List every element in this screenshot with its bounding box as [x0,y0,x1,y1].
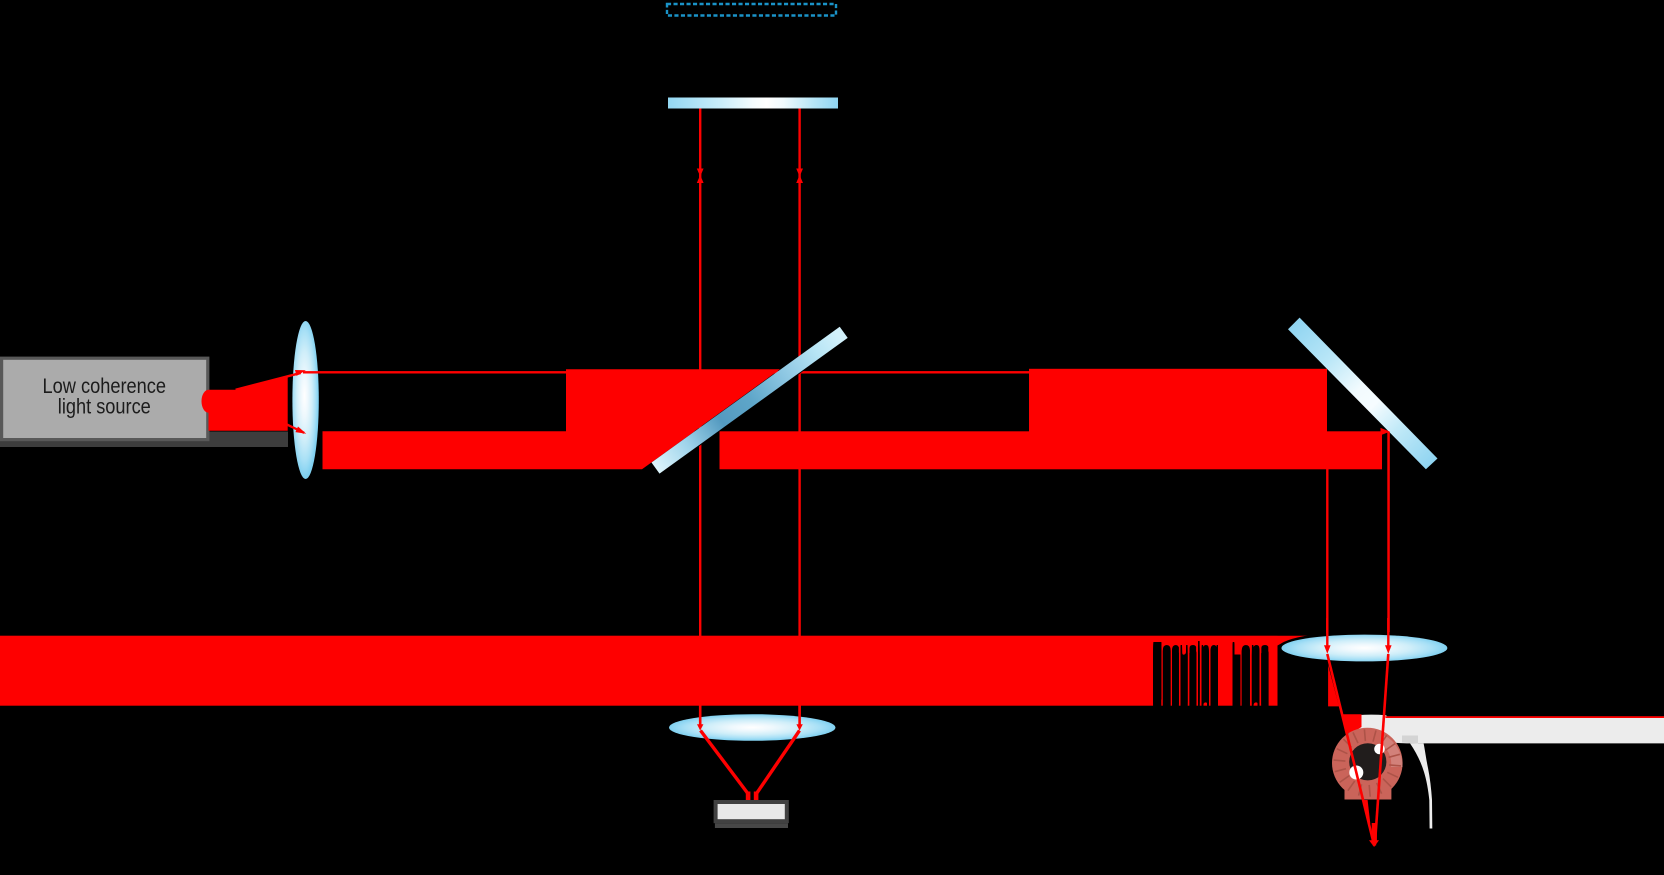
svg-text:Focusing: Focusing [1152,695,1219,717]
svg-text:Low coherence: Low coherence [43,375,167,398]
svg-text:light source: light source [58,396,151,419]
svg-text:Lens: Lens [1231,695,1269,717]
